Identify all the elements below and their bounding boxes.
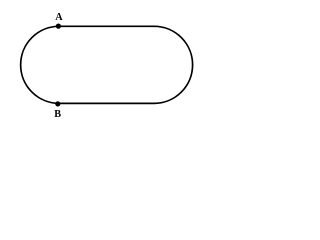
svg-text:B: B [54, 109, 61, 120]
node B [55, 101, 60, 106]
svg-text:A: A [55, 12, 63, 23]
node A [56, 24, 61, 29]
stadium loop [21, 26, 193, 103]
